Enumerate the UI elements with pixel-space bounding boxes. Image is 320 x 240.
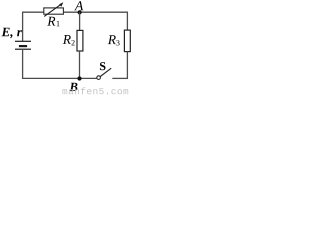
battery E,r plate long top — [15, 40, 31, 42]
wire: top rail left segment — [22, 11, 44, 13]
switch S blade — [100, 68, 111, 76]
resistor R3 box — [124, 30, 130, 51]
watermark manfen5.com — [62, 87, 128, 94]
battery short thick plate — [19, 45, 27, 47]
label B — [69, 83, 77, 91]
wire: bottom rail left segment — [22, 77, 97, 79]
wire: right vertical lower — [126, 52, 128, 79]
wire: R2 branch lower — [79, 51, 81, 78]
resistor R2 box — [77, 30, 83, 51]
node B dot — [77, 76, 81, 80]
battery plate long bottom — [15, 48, 31, 50]
node A dot — [78, 10, 82, 14]
wire: R2 branch upper — [79, 12, 81, 30]
wire: left vertical lower (battery to bottom corner) — [22, 49, 24, 78]
label R3 — [108, 35, 116, 44]
switch S hinge circle — [97, 76, 101, 80]
label S — [100, 62, 106, 70]
resistor R1 (rheostat box) — [44, 8, 64, 14]
label E, r — [2, 28, 22, 39]
label R2 — [63, 35, 71, 44]
wire: bottom rail right segment — [112, 77, 128, 79]
wire: left vertical upper (corner to battery) — [22, 12, 24, 42]
wire: top rail right segment — [63, 11, 128, 13]
label R1 — [47, 17, 55, 26]
label A — [74, 1, 83, 10]
wire: right vertical upper — [126, 12, 128, 31]
rheostat R1 arrow — [44, 5, 61, 17]
